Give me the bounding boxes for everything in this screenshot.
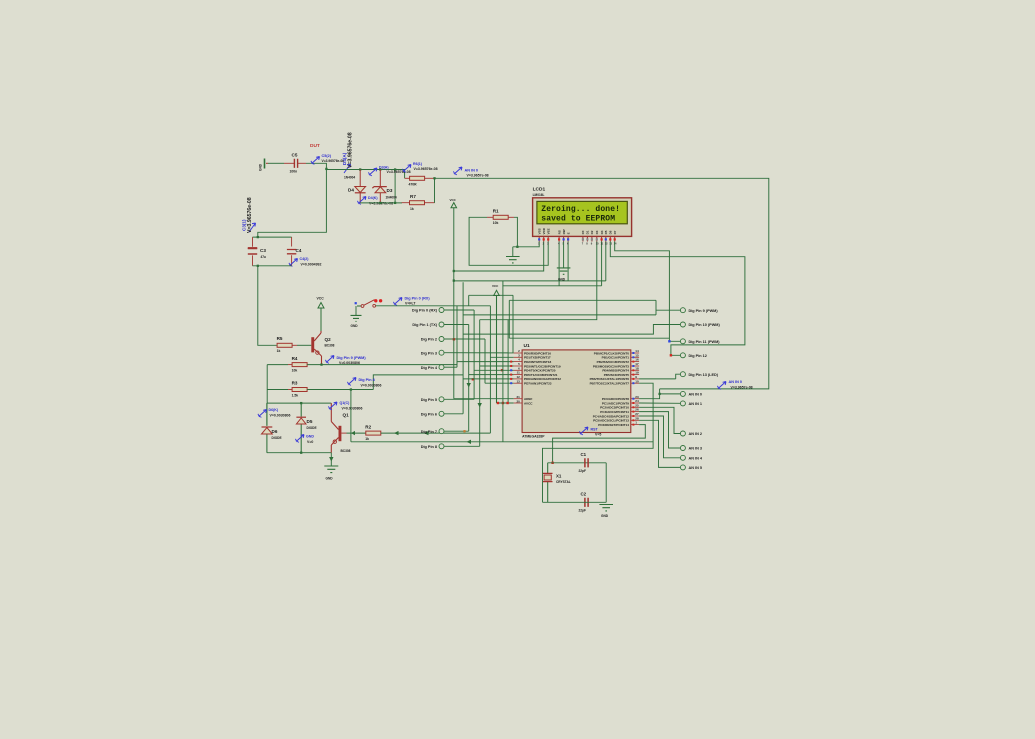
pin U1 right PC3/ADC3/PCINT11 (26) (631, 411, 639, 413)
junction D3 top (379, 168, 381, 170)
junction Dig12 red (670, 354, 672, 356)
wire PD4 row (474, 369, 514, 371)
lcd pin D7 (14) (614, 237, 616, 242)
wire LCD D7 route (615, 242, 681, 342)
svg-text:V=3.96576e-08: V=3.96576e-08 (348, 132, 354, 168)
wire C3 bottom lead (252, 255, 254, 265)
state dot U1 PC1/ADC1/PCINT9 (632, 402, 634, 404)
pin U1 right PB7/TOSC2/XTAL2/PCINT7 (10) (631, 382, 639, 384)
svg-text:V=0.0030806: V=0.0030806 (339, 361, 360, 365)
state dot U1 PD5/T1/OC0B/PCINT21 (510, 374, 512, 376)
junction state red a (472, 378, 474, 380)
junction caps top (257, 236, 259, 238)
svg-text:22pF: 22pF (579, 469, 586, 473)
svg-text:R1: R1 (493, 209, 499, 214)
lcd pin D5 (12) (605, 237, 607, 242)
state dot U1 PD6/AIN0/OC0A/PCINT22 (510, 378, 512, 380)
wire AREF row (454, 398, 514, 400)
junction state red b (501, 369, 503, 371)
lcd pin E (6) (567, 237, 569, 242)
wire C3 top lead (252, 237, 254, 247)
wire AN0 circle lead (660, 393, 681, 395)
wire R3 row (267, 389, 288, 391)
svg-text:AN IN 3: AN IN 3 (689, 447, 703, 451)
wire diode block bottom rail (267, 452, 331, 454)
junction R1 gnd (516, 246, 518, 248)
svg-text:PD2/INT0/PCINT18: PD2/INT0/PCINT18 (524, 360, 551, 364)
svg-text:D3: D3 (595, 230, 599, 234)
wire clamp top rail (326, 170, 404, 179)
wire Dig Pin 0 stub (444, 309, 474, 311)
svg-text:V=0.0030806: V=0.0030806 (361, 383, 382, 387)
junction VCC col 280 (453, 279, 455, 281)
resistor R7 (410, 201, 425, 205)
svg-text:Dig Pin 7: Dig Pin 7 (421, 430, 437, 434)
state dot U1 PC3/ADC3/PCINT11 (632, 411, 634, 413)
svg-text:10k: 10k (292, 368, 298, 372)
resistor R4 (292, 363, 307, 367)
terminal Dig Pin 12 (680, 353, 685, 358)
svg-text:X1: X1 (556, 474, 562, 479)
wire C4 bottom lead (291, 255, 293, 266)
svg-text:R4: R4 (292, 356, 298, 361)
wire R1 left loop (469, 217, 548, 265)
terminal Dig Pin 10 (PWM) (680, 322, 685, 327)
wire Q1 base lead (341, 432, 346, 434)
svg-text:1N4004: 1N4004 (386, 196, 397, 200)
svg-text:RW: RW (562, 229, 566, 234)
svg-text:Dig Pin 12: Dig Pin 12 (689, 354, 707, 358)
svg-text:BC308: BC308 (341, 449, 351, 453)
svg-text:VCC: VCC (450, 198, 457, 202)
capacitor C1 (585, 458, 588, 467)
wire mesh row 315 (Dig9 link) (463, 314, 656, 316)
terminal AN IN 1 (680, 401, 685, 406)
svg-text:V=0: V=0 (307, 440, 313, 444)
wire Q1 ground stem (330, 453, 332, 466)
wire R4 left lead (288, 364, 293, 366)
wire arrow v468 down (467, 383, 471, 388)
wire mesh row 286 (503, 281, 602, 286)
wire R2 right row (381, 432, 491, 434)
state dot U1 PB2/SS/OC1B/PCINT2 (632, 361, 634, 363)
svg-text:Dig Pin 9 (PWM): Dig Pin 9 (PWM) (689, 309, 719, 313)
svg-text:Dig Pin 13 (LED): Dig Pin 13 (LED) (689, 373, 719, 377)
wire mesh v513 (512, 295, 514, 353)
pin U1 right PC4/ADC4/SDA/PCINT12 (27) (631, 415, 639, 417)
svg-text:ATMEGA328P: ATMEGA328P (522, 435, 545, 439)
probe C5(2) (313, 157, 320, 163)
state dot U1 PB3/MOSI/OC2A/PCINT3 (632, 365, 634, 367)
svg-text:BC308: BC308 (325, 344, 335, 348)
pin U1 right PB4/MISO/PCINT4 (18) (631, 369, 639, 371)
wire arrow v479 down (478, 403, 482, 408)
junction Dig11 blue (668, 340, 670, 342)
crystal X1 (547, 463, 549, 503)
wire LCD D5 drop (605, 242, 607, 281)
svg-text:1N4004: 1N4004 (344, 176, 355, 180)
wire mesh v463 (462, 282, 464, 414)
wire clamp mid vertical (394, 170, 396, 203)
terminal Dig Pin 6 (439, 411, 444, 416)
terminal AN IN 4 (680, 455, 685, 460)
svg-text:D5: D5 (604, 230, 608, 234)
svg-text:V=3.96576e-08: V=3.96576e-08 (387, 170, 411, 174)
ground symbol LCD RW (557, 268, 571, 274)
diode D5 (300, 403, 302, 453)
state dot U1 PB4/MISO/PCINT4 (632, 369, 634, 371)
wire R7 right lead (425, 202, 435, 204)
pin U1 right PC1/ADC1/PCINT9 (24) (631, 402, 639, 404)
wire PD6 row (463, 378, 514, 380)
svg-text:V=5: V=5 (595, 433, 601, 437)
lcd pin D6 (13) (609, 237, 611, 242)
probe D4(A) rotated (344, 164, 351, 173)
resistor R3 (292, 388, 307, 392)
pin U1 right PC0/ADC0/PCINT8 (23) (631, 398, 639, 400)
wire mesh row 281 (454, 280, 606, 282)
wire caps bottom rail (253, 265, 292, 267)
probe C4(2) (291, 259, 298, 265)
junction VCC col 271 (453, 270, 455, 272)
svg-text:VCC: VCC (492, 284, 499, 288)
wire LCD D4 drop (601, 242, 603, 286)
svg-text:GND: GND (558, 278, 566, 282)
wire LCD E drop (567, 242, 569, 281)
state dot U1 PB6/TOSC1/XTAL1/PCINT6 (632, 378, 634, 380)
lcd pin VSS (1) (538, 237, 540, 242)
svg-text:DIODE: DIODE (307, 426, 317, 430)
terminal AN IN 2 (680, 431, 685, 436)
wire mesh v479 (479, 320, 481, 447)
svg-text:Dig Pin 11 (PWM): Dig Pin 11 (PWM) (689, 340, 721, 344)
state dot U1 PC2/ADC2/PCINT10 (632, 406, 634, 408)
probe U1 reset (581, 427, 588, 433)
wire arrow base row (351, 431, 355, 435)
terminal Dig Pin 9 (PWM) (680, 308, 685, 313)
wire C5 lead right (298, 162, 306, 164)
svg-text:AVCC: AVCC (524, 401, 533, 405)
svg-text:AN IN 4: AN IN 4 (689, 456, 703, 460)
svg-text:C3: C3 (260, 248, 266, 253)
wire PB6 row to Dig13 (639, 378, 676, 380)
svg-text:C4(2): C4(2) (300, 257, 310, 261)
wire R1 right loop (513, 217, 518, 247)
terminal Dig Pin 7 (439, 429, 444, 434)
svg-text:C4: C4 (296, 248, 302, 253)
probe Dig Pin 0 (RX) (395, 298, 402, 304)
junction AVCC b (506, 402, 508, 404)
wire PD7 row (485, 382, 514, 384)
lcd pin VEE (3) (547, 237, 549, 242)
svg-text:DIODE: DIODE (272, 436, 282, 440)
wire Dig Pin 1 stub (444, 324, 469, 326)
wire R5 to Q2 base (297, 344, 311, 346)
ground terminal GND (input) (264, 159, 266, 169)
terminal Dig Pin 13 (LED) (680, 372, 685, 377)
svg-text:PB2/SS/OC1B/PCINT2: PB2/SS/OC1B/PCINT2 (597, 360, 630, 364)
pin U1 right PB6/TOSC1/XTAL1/PCINT6 (9) (631, 378, 639, 380)
wire mesh row 320 (LCD D3) (480, 242, 597, 320)
wire Dig Pin 5 stub (444, 398, 474, 400)
state dot U1 PD4/T0/XCK/PCINT20 (510, 369, 512, 371)
pin U1 left PD3/INT1/OC2B/PCINT19 (5) (514, 365, 522, 367)
switch SW (to Dig Pin 0) (355, 302, 357, 304)
pin U1 right PC5/ADC5/SCL/PCINT13 (28) (631, 419, 639, 421)
ground symbol LCD left (506, 257, 520, 263)
state dot U1 PB1/OC1A/PCINT1 (632, 356, 634, 358)
wire mesh v457 (456, 306, 458, 365)
junction clamp mid bottom (394, 202, 396, 204)
wire switch jog (468, 295, 470, 306)
wire crystal right tie (605, 463, 607, 503)
wire switch gnd stem (355, 306, 357, 315)
svg-text:1k: 1k (277, 349, 281, 353)
wire clamp bottom rail (360, 202, 402, 204)
capacitor C3 (polarized) (248, 249, 257, 255)
probe AN IN 0 (right) (719, 382, 726, 388)
wire PC2 to AN2 (639, 407, 680, 433)
wire mesh row 295 (469, 294, 513, 296)
svg-text:16: 16 (635, 358, 639, 362)
svg-text:D1: D1 (586, 230, 590, 234)
svg-text:C1: C1 (581, 452, 587, 457)
wire arrow R2 row 2 (424, 431, 429, 435)
wire R4 left vertical (266, 365, 268, 404)
terminal AN IN 3 (680, 446, 685, 451)
lcd module LCD1 body (533, 198, 632, 237)
svg-text:Q1: Q1 (343, 413, 350, 418)
junction DUT node (325, 168, 327, 170)
svg-text:22pF: 22pF (579, 508, 586, 512)
terminal Dig Pin 0 (RX) (439, 308, 444, 313)
wire caps to R5 (258, 266, 277, 346)
wire C5 output to DUT node (306, 163, 326, 169)
state dot U1 PC6/RESET/PCINT14 (632, 424, 634, 426)
wire R6-R7 tie (434, 178, 436, 203)
svg-text:R3: R3 (292, 381, 298, 386)
svg-text:Dig Pin 8: Dig Pin 8 (421, 445, 437, 449)
svg-text:AN IN 1: AN IN 1 (689, 402, 703, 406)
svg-text:Dig Pin 0 (RX): Dig Pin 0 (RX) (405, 297, 431, 301)
pin U1 left PD7/AIN1/PCINT23 (13) (514, 382, 522, 384)
wire mesh row 338 (Dig11 link) (509, 337, 669, 339)
svg-text:V=0.0030806: V=0.0030806 (270, 414, 291, 418)
wire PC5 to AN5 (639, 420, 680, 467)
svg-text:D4(A): D4(A) (342, 152, 347, 165)
wire R3 output row (307, 389, 373, 391)
svg-text:Dig Pin 10 (PWM): Dig Pin 10 (PWM) (689, 323, 721, 327)
junction crystal top red (551, 462, 553, 464)
diode D4 (359, 170, 361, 187)
wire Dig9 link (656, 300, 680, 310)
junction D4 top (359, 168, 361, 170)
wire Dig10 link (463, 325, 680, 335)
svg-text:Q2: Q2 (325, 337, 332, 342)
junction R6 output (433, 177, 435, 179)
svg-text:VEE: VEE (546, 228, 550, 234)
wire mesh v508 (507, 320, 509, 403)
wire D6 branch (266, 403, 268, 426)
svg-text:GND: GND (351, 324, 359, 328)
svg-text:RST: RST (591, 428, 599, 432)
svg-text:VSS: VSS (537, 228, 541, 234)
svg-text:D0: D0 (581, 230, 585, 234)
wire AN IN 0 net long (435, 178, 769, 389)
wire mesh row 300 (509, 299, 656, 301)
svg-text:V=3.9657e-08: V=3.9657e-08 (731, 385, 753, 389)
svg-text:GND: GND (326, 477, 334, 481)
wire mesh v509 (508, 300, 510, 338)
svg-text:V=3.9657e-08: V=3.9657e-08 (467, 174, 489, 178)
transistor Q2 (PNP BC308) (311, 337, 314, 352)
wire mesh v490 (489, 306, 491, 433)
resistor R5 (277, 343, 292, 347)
svg-text:PC6/RESET/PCINT14: PC6/RESET/PCINT14 (598, 423, 629, 427)
svg-text:C5: C5 (292, 153, 298, 158)
svg-text:C5(2): C5(2) (322, 154, 332, 158)
svg-text:1k: 1k (365, 437, 369, 441)
svg-text:AN IN 2: AN IN 2 (689, 432, 703, 436)
wire LCD RW gnd (563, 242, 565, 268)
svg-text:47u: 47u (261, 255, 267, 259)
probe D3 anode (370, 168, 377, 174)
junction caps bottom (257, 265, 259, 267)
wire PC3 to AN3 (639, 412, 680, 448)
wire Dig Pin 8 stub (444, 445, 480, 447)
wire Dig13 link (676, 374, 681, 379)
lcd pin D1 (8) (586, 237, 588, 242)
capacitor C2 (585, 498, 588, 507)
svg-text:D6: D6 (272, 429, 278, 434)
svg-text:D6: D6 (609, 230, 613, 234)
lcd pin RW (5) (563, 237, 565, 242)
lcd pin RS (4) (558, 237, 560, 242)
svg-text:saved to EEPROM: saved to EEPROM (541, 214, 615, 223)
svg-text:CRYSTAL: CRYSTAL (556, 480, 571, 484)
svg-text:1k: 1k (410, 207, 414, 211)
wire crystal rail A (548, 462, 607, 464)
svg-text:D4(K): D4(K) (368, 196, 378, 200)
svg-text:DUT: DUT (310, 143, 320, 149)
wire mesh v485 (484, 339, 486, 383)
svg-text:Zeroing... done!: Zeroing... done! (541, 205, 620, 214)
state dot U1 PB0/ICP1/CLKO/PCINT0 (632, 352, 634, 354)
wire LCD RS drop (558, 242, 560, 286)
svg-text:V=0.0030806: V=0.0030806 (342, 406, 363, 410)
pin U1 right PC6/RESET/PCINT14 (1) (631, 424, 639, 426)
wire diode block top rail (267, 402, 331, 404)
junction D5 bottom (300, 452, 302, 454)
svg-text:10k: 10k (493, 221, 499, 225)
svg-text:10: 10 (635, 379, 639, 383)
svg-text:AN IN 5: AN IN 5 (689, 466, 703, 470)
svg-text:Dig Pin 5: Dig Pin 5 (421, 398, 437, 402)
svg-text:PB7/TOSC2/XTAL2/PCINT7: PB7/TOSC2/XTAL2/PCINT7 (590, 382, 630, 386)
svg-text:E: E (566, 232, 570, 234)
svg-text:V=0.0004992: V=0.0004992 (301, 263, 322, 267)
wire R1 left lead (487, 216, 493, 218)
junction AVCC a (497, 402, 499, 404)
wire crystal rail B (543, 501, 607, 503)
wire PD2 row (457, 361, 514, 363)
svg-text:Dig Pin 0 (RX): Dig Pin 0 (RX) (412, 309, 438, 313)
svg-text:D6(K): D6(K) (269, 408, 279, 412)
svg-text:26: 26 (635, 408, 639, 412)
svg-text:470R: 470R (409, 183, 418, 187)
wire PC4 to AN4 (639, 416, 680, 458)
pin U1 left PD1/TXD/PCINT17 (3) (514, 356, 522, 358)
svg-text:Dig Pin 1 (TX): Dig Pin 1 (TX) (412, 323, 437, 327)
resistor R1 (493, 215, 508, 219)
probe D4(K) (359, 197, 366, 203)
wire PB7 to crystal (543, 383, 654, 502)
svg-text:GND: GND (259, 163, 263, 171)
svg-text:D4: D4 (348, 188, 354, 193)
svg-text:LM016L: LM016L (533, 193, 545, 197)
svg-text:RS: RS (557, 230, 561, 234)
pin U1 right PB1/OC1A/PCINT1 (15) (631, 356, 639, 358)
svg-text:V=3.96576e-08: V=3.96576e-08 (414, 167, 438, 171)
ground symbol Q1 (324, 466, 338, 473)
wire mesh v457 ext (456, 362, 458, 365)
lcd pin VDD (2) (543, 237, 545, 242)
lcd pin D3 (10) (596, 237, 598, 242)
diode D6 (266, 403, 268, 453)
svg-text:GND: GND (306, 435, 314, 439)
svg-text:D7: D7 (613, 230, 617, 234)
svg-text:AN IN 0: AN IN 0 (729, 380, 743, 384)
state dot U1 PD7/AIN1/PCINT23 (510, 382, 512, 384)
pin U1 AVCC (20) (514, 402, 522, 404)
pin U1 right PB0/ICP1/CLKO/PCINT0 (14) (631, 352, 639, 354)
state dot U1 PC0/ADC0/PCINT8 (632, 398, 634, 400)
wire Dig Pin 3 stub (444, 352, 514, 354)
wire R1 right lead (508, 216, 514, 218)
probe Q1(C) (330, 402, 337, 408)
wire R6 right lead (425, 177, 435, 179)
state dot U1 PD3/INT1/OC2B/PCINT19 (510, 365, 512, 367)
junction Q2 emitter R4 (320, 363, 322, 365)
svg-text:Q1(C): Q1(C) (340, 401, 351, 405)
svg-text:C3(1): C3(1) (241, 219, 246, 231)
wire arrow gnd stem (329, 457, 333, 462)
svg-text:20: 20 (516, 399, 520, 403)
probe GND net (297, 435, 304, 441)
wire R1 vss link (517, 242, 539, 247)
lcd pin D0 (7) (582, 237, 584, 242)
ground symbol switch (351, 315, 362, 321)
wire DUT down to caps (258, 169, 327, 237)
terminal Dig Pin 5 (439, 397, 444, 402)
wire mesh v474 (473, 310, 475, 399)
capacitor C4 (287, 250, 296, 254)
wire LCD D6 route (610, 242, 745, 356)
probe D6(K) (260, 410, 267, 416)
wire VCC column (453, 208, 455, 399)
wire R3 left lead (288, 389, 293, 391)
state dot U1 PB7/TOSC2/XTAL2/PCINT7 (632, 382, 634, 384)
wire Dig Pin 4 stub (444, 366, 457, 368)
svg-text:AN IN 0: AN IN 0 (689, 393, 703, 397)
terminal Dig Pin 2 (439, 337, 444, 342)
state dot U1 PC5/ADC5/SCL/PCINT13 (632, 419, 634, 421)
svg-text:VDD: VDD (542, 227, 546, 234)
svg-text:R7: R7 (410, 194, 416, 199)
pin U1 right PB2/SS/OC1B/PCINT2 (16) (631, 361, 639, 363)
terminal Dig Pin 3 (439, 350, 444, 355)
terminal Dig Pin 4 (439, 365, 444, 370)
